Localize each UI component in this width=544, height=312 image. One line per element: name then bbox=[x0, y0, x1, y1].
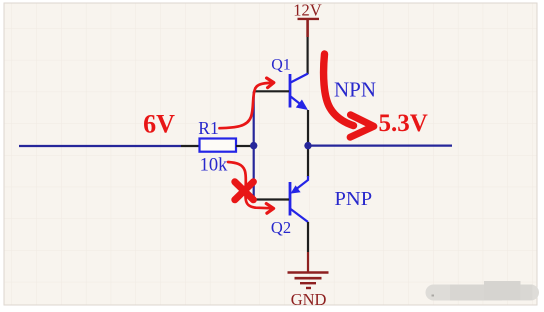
wire input left segment bbox=[19, 145, 181, 147]
transistor Q1 (NPN) bbox=[290, 74, 308, 111]
annotation output voltage 5.3V bbox=[379, 110, 428, 137]
power bar symbol 12V bbox=[298, 19, 320, 37]
ground label GND bbox=[291, 290, 327, 309]
annotation arrow from 10k to Q2 base bbox=[228, 162, 274, 213]
wire 12V to Q1 collector bbox=[307, 37, 309, 74]
svg-text:6V: 6V bbox=[143, 109, 175, 138]
svg-text:12V: 12V bbox=[293, 0, 322, 19]
wire output bbox=[308, 145, 452, 147]
svg-text:NPN: NPN bbox=[334, 78, 376, 102]
ground lead bbox=[307, 252, 309, 272]
node output junction bbox=[304, 142, 311, 149]
resistor R1 label bbox=[198, 118, 218, 138]
node base junction bbox=[250, 142, 257, 149]
transistor Q1 label bbox=[271, 57, 291, 74]
wire resistor right lead bbox=[236, 145, 252, 147]
svg-text:PNP: PNP bbox=[335, 188, 373, 210]
wire Q1 emitter down through output node bbox=[307, 110, 309, 177]
wire Q2 base bbox=[254, 198, 289, 200]
svg-text:R1: R1 bbox=[198, 118, 218, 138]
power rail 12V label bbox=[293, 0, 322, 19]
wire resistor left lead bbox=[181, 145, 199, 147]
watermark blob bbox=[426, 281, 540, 301]
transistor Q2 label bbox=[271, 218, 291, 237]
annotation NPN label bbox=[334, 78, 376, 102]
annotation arrow to Q1 base bbox=[220, 78, 274, 128]
annotation PNP label bbox=[335, 188, 373, 210]
annotation X cross-out on Q2 base path bbox=[235, 182, 254, 200]
wire base bus vertical bbox=[253, 92, 255, 200]
transistor Q2 (PNP) bbox=[290, 176, 308, 222]
svg-text:Q2: Q2 bbox=[271, 218, 291, 237]
wire Q1 base bbox=[254, 90, 289, 92]
annotation 6V input voltage bbox=[143, 109, 175, 138]
svg-text:Q1: Q1 bbox=[271, 57, 291, 74]
ground symbol bbox=[288, 273, 329, 289]
annotation thick arrow NPN conducting bbox=[324, 54, 374, 137]
resistor R1 body bbox=[200, 139, 237, 152]
resistor R1 value 10k bbox=[200, 156, 229, 176]
svg-text:5.3V: 5.3V bbox=[379, 110, 428, 137]
svg-text:GND: GND bbox=[291, 290, 327, 309]
wire Q2 collector to ground bbox=[307, 222, 309, 252]
svg-text:10k: 10k bbox=[200, 156, 229, 176]
